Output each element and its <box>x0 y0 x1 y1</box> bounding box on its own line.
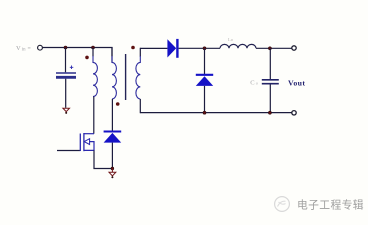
wire secondary top stem <box>139 48 141 57</box>
junction node SW <box>203 47 206 50</box>
input terminal <box>38 45 43 50</box>
transformer T1 core <box>125 54 127 100</box>
svg-text:o: o <box>256 81 259 86</box>
transformer T1 primary winding <box>93 56 97 97</box>
wire Co top lead <box>269 48 271 79</box>
wire C1 bottom lead <box>65 79 67 108</box>
capacitor Co <box>262 80 279 84</box>
svg-text:电子工程专辑: 电子工程专辑 <box>297 198 364 212</box>
logo icon <box>275 197 290 212</box>
svg-text:V: V <box>16 45 21 52</box>
wire Lo to output <box>256 47 292 49</box>
wire top rail <box>43 48 112 63</box>
wire D1 anode lead <box>111 143 113 169</box>
svg-text:in: in <box>22 47 26 52</box>
wire bottom rail <box>140 112 291 114</box>
junction Co top <box>268 47 271 50</box>
wire gate stub <box>57 150 80 152</box>
inductor Lo <box>220 44 256 48</box>
transformer T1 secondary winding <box>136 56 140 99</box>
wire reset winding top stem <box>111 47 113 57</box>
junction D3 anode <box>203 111 206 114</box>
phase dot secondary <box>131 46 135 50</box>
wire C1 top lead <box>65 48 67 73</box>
capacitor C1 plus sign <box>70 66 74 70</box>
phase dot primary <box>85 56 89 60</box>
output terminal + <box>292 46 296 50</box>
diode D3 freewheeling <box>196 75 213 86</box>
transistor Q1 MOSFET <box>80 133 94 151</box>
ground (source) <box>109 169 116 179</box>
transformer T1 reset winding <box>112 56 116 99</box>
wire Co bottom lead <box>269 85 271 113</box>
ground (input) <box>63 108 70 114</box>
capacitor C1 <box>56 73 76 77</box>
output terminal - <box>292 111 296 115</box>
wire secondary bottom lead <box>139 99 141 113</box>
wire reset winding to D1 <box>111 99 113 132</box>
wire D2 to node SW <box>179 47 220 49</box>
junction at primary top <box>92 46 95 49</box>
wire primary top stem <box>92 48 94 57</box>
phase dot reset winding <box>116 102 120 106</box>
wire source lead <box>94 150 112 168</box>
junction source node <box>111 167 114 170</box>
diode D1 reset <box>104 132 122 143</box>
svg-text:Lo: Lo <box>228 37 234 42</box>
wire primary bottom to drain <box>93 97 95 134</box>
diode D2 rectifier <box>167 39 177 58</box>
wire secondary top to D2 <box>140 47 167 49</box>
junction at C1 top <box>64 46 67 49</box>
junction Co bottom <box>268 111 271 114</box>
wire D3 anode lead <box>204 86 206 113</box>
svg-text:C: C <box>250 79 254 86</box>
svg-text:Vout: Vout <box>288 79 305 88</box>
wire D3 cathode lead <box>204 48 206 74</box>
